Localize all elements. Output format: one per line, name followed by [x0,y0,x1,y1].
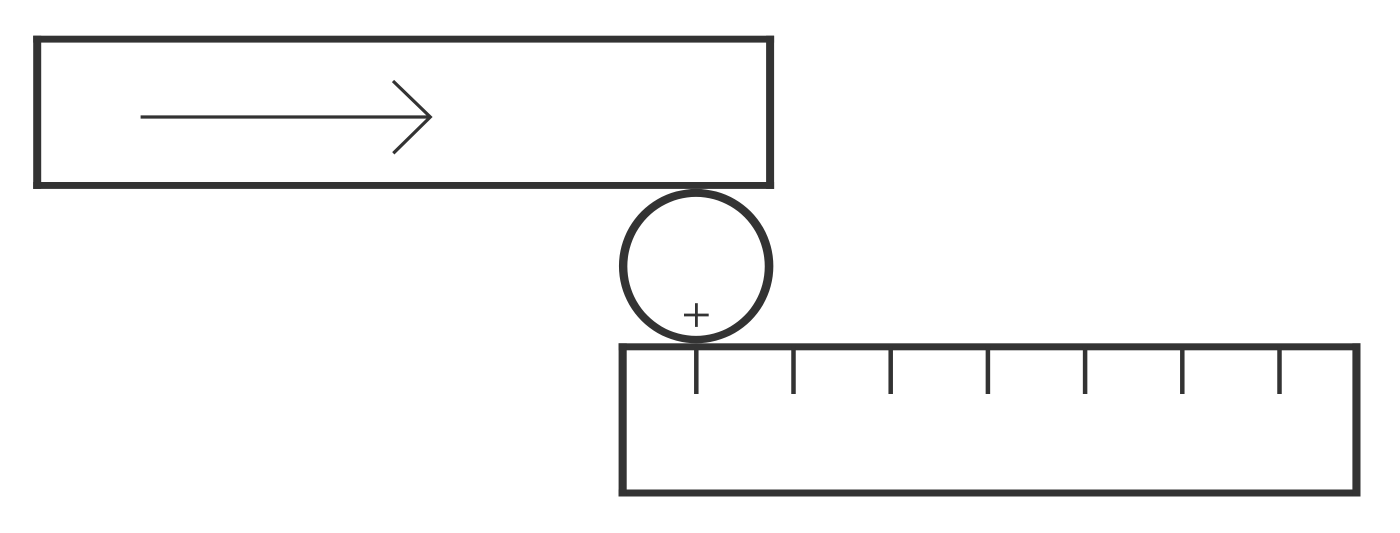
tick 4 [986,346,991,394]
velocity arrow shaft [141,115,430,118]
tick 1 [694,346,699,394]
tick 2 [791,346,796,394]
upper block (top rectangle) [33,36,774,189]
center mark (plus sign) [684,303,709,327]
roller (circle) [619,189,773,343]
tick 6 [1180,346,1185,394]
tick 3 [888,346,893,394]
velocity arrow head [393,81,430,153]
tick 7 [1277,346,1282,394]
lower rack (bottom rectangle) [619,343,1361,496]
tick 5 [1083,346,1088,394]
